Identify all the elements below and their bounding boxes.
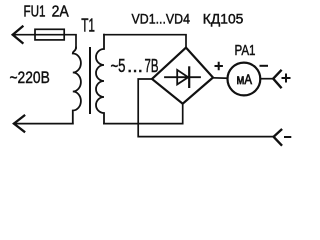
transformer T1 core [89, 48, 91, 113]
svg-text:~5: ~5 [111, 56, 126, 76]
fuse FU1 [35, 29, 64, 40]
minus sign above wire [261, 65, 268, 67]
svg-text:FU1: FU1 [24, 3, 46, 20]
wire arrow to fuse [13, 34, 35, 36]
input arrow bottom (AC line) [14, 116, 24, 132]
svg-text:VD1...VD4: VD1...VD4 [132, 11, 191, 27]
diode bridge VD1-VD4 diamond [152, 48, 213, 104]
input arrow top (AC line) [13, 27, 23, 43]
svg-text:2A: 2A [52, 3, 70, 20]
wire bridge to meter [213, 77, 228, 79]
minus output connector [274, 130, 282, 145]
meter PA1 circle [228, 63, 261, 96]
transformer T1 secondary winding [96, 35, 104, 124]
svg-text:КД105: КД105 [203, 11, 244, 27]
transformer T1 primary winding [73, 48, 81, 124]
svg-text:7В: 7В [145, 56, 159, 76]
diode symbol inside bridge [165, 76, 200, 78]
plus output connector [273, 71, 281, 88]
wire meter to plus terminal [260, 78, 273, 80]
svg-text:мА: мА [237, 72, 253, 87]
minus sign at output [285, 136, 290, 138]
plus sign at bridge output [216, 63, 222, 69]
wire fuse to transformer primary [64, 35, 76, 48]
wire secondary bottom to bridge bottom [104, 104, 183, 124]
wire secondary top to bridge apex [104, 35, 186, 48]
svg-text:PA1: PA1 [235, 42, 256, 59]
svg-text:...: ... [127, 56, 143, 76]
wire primary bottom to arrow [14, 123, 73, 125]
svg-text:~220В: ~220В [10, 69, 50, 87]
wire bridge left corner to minus rail [138, 79, 273, 137]
plus sign at output [283, 75, 290, 82]
svg-text:T1: T1 [81, 16, 95, 36]
